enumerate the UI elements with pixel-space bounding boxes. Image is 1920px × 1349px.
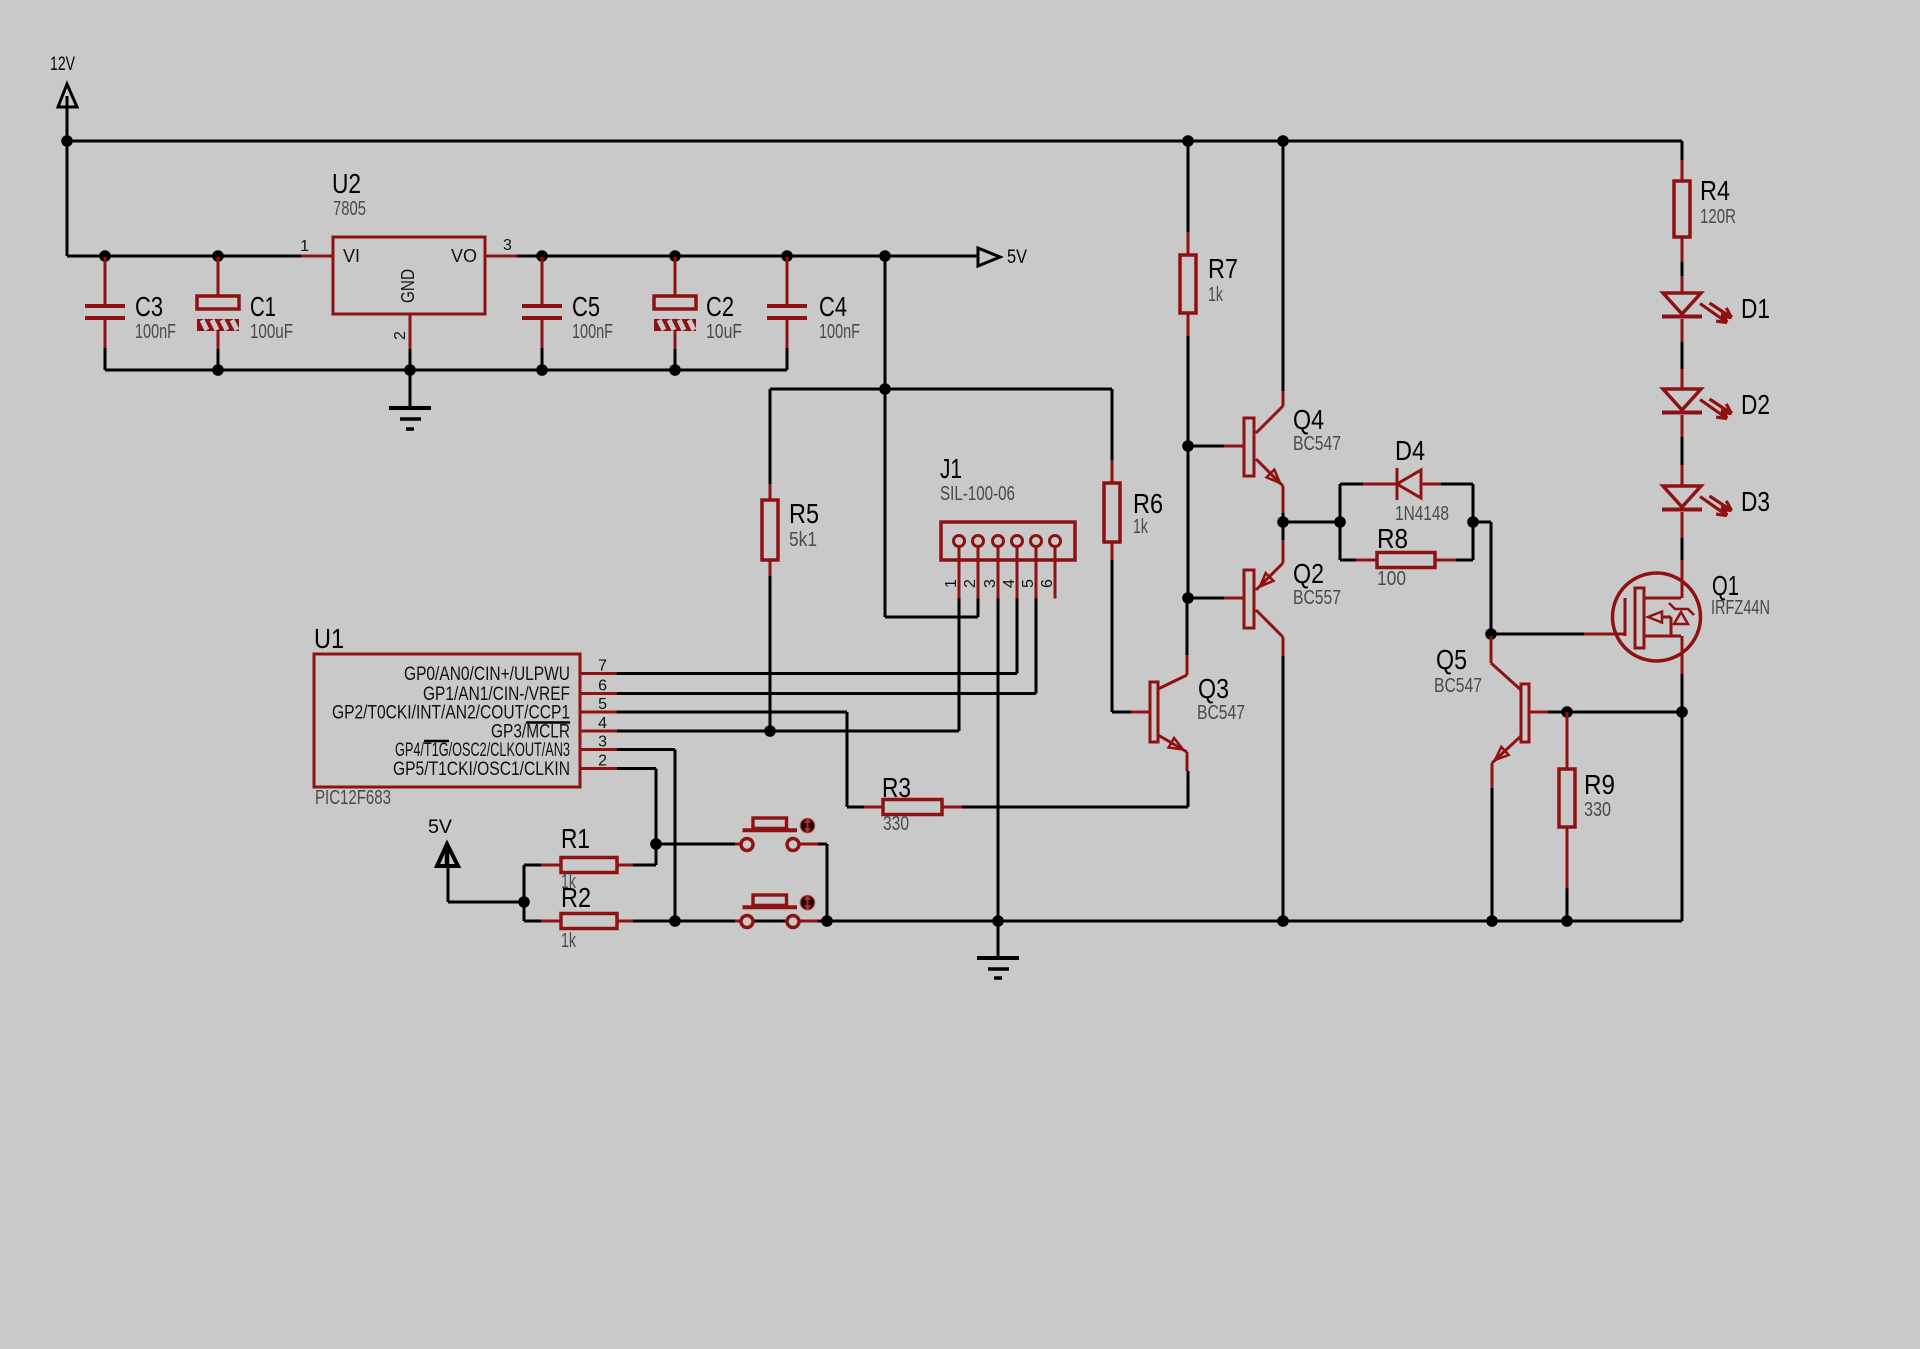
J1 pin number 4 <box>1001 579 1018 588</box>
R2 value 1k <box>561 930 577 952</box>
C4 value 100nF <box>819 321 860 343</box>
U1 pin number 7 <box>598 658 607 675</box>
C5 label <box>572 291 600 322</box>
svg-text:D2: D2 <box>1741 389 1770 420</box>
Q2 base wire <box>1188 597 1224 600</box>
D4 value 1N4148 <box>1395 503 1449 525</box>
voltage regulator U2 body <box>333 237 485 314</box>
svg-text:BC547: BC547 <box>1434 675 1482 697</box>
resistor R3 <box>864 800 962 815</box>
wire GP5 to R1 node <box>617 769 656 866</box>
R4 label <box>1700 175 1730 206</box>
J1 label <box>940 453 962 484</box>
U1 label <box>314 623 344 654</box>
junction R9 bottom <box>1561 915 1573 927</box>
wire node to D4/R8 <box>1283 521 1340 524</box>
wire 12V rail to R4 <box>1681 141 1684 160</box>
R1 label <box>561 823 590 854</box>
J1 pin number 5 <box>1020 579 1037 588</box>
svg-text:7805: 7805 <box>333 198 366 220</box>
Q3 value BC547 <box>1197 702 1245 724</box>
R9 label <box>1584 769 1615 800</box>
R9 value 330 <box>1584 799 1611 821</box>
transistor Q3 <box>1131 655 1187 771</box>
wire D4/R8 left link <box>1339 484 1342 560</box>
R2 label <box>561 882 591 913</box>
junction C1 bottom <box>212 364 224 376</box>
switch button2 contacts <box>735 916 818 928</box>
U2 pin 2 <box>392 314 410 349</box>
junction 5V branch <box>879 250 891 262</box>
svg-text:R7: R7 <box>1208 253 1238 284</box>
svg-text:3: 3 <box>598 734 607 751</box>
svg-text:5: 5 <box>598 696 607 713</box>
svg-text:IRFZ44N: IRFZ44N <box>1711 597 1770 619</box>
svg-text:R1: R1 <box>561 823 590 854</box>
capacitor C1 (polarized) <box>197 257 239 370</box>
Q2 label <box>1293 558 1324 589</box>
J1 pin 1 stub and pad <box>954 536 965 599</box>
svg-text:330: 330 <box>1584 799 1611 821</box>
wire Q2 emitter to node <box>1282 522 1285 540</box>
U1 pin name GP0/AN0/CIN+/ULPWU <box>404 663 570 685</box>
capacitor C4 <box>767 257 807 370</box>
power 12V arrow symbol <box>58 84 77 107</box>
svg-text:10uF: 10uF <box>706 321 742 343</box>
svg-text:R2: R2 <box>561 882 591 913</box>
R7 value 1k <box>1208 284 1224 306</box>
U2 pin 3 <box>485 237 517 256</box>
U1 pin 3 stub <box>580 748 617 751</box>
svg-text:5V: 5V <box>1007 246 1027 268</box>
junction D4/R8 left node <box>1334 516 1346 528</box>
power 5V net label (buttons) <box>428 816 452 838</box>
svg-text:2: 2 <box>392 331 409 340</box>
svg-text:4: 4 <box>1001 579 1018 588</box>
svg-text:C2: C2 <box>706 291 734 322</box>
svg-text:6: 6 <box>1039 579 1056 588</box>
wire J1 pin2 to 5V <box>885 598 978 617</box>
svg-text:D3: D3 <box>1741 486 1770 517</box>
U1 pin number 6 <box>598 678 607 695</box>
svg-text:100nF: 100nF <box>135 321 176 343</box>
wire Q4 emitter to node <box>1282 513 1285 522</box>
Q3 label <box>1198 673 1229 704</box>
svg-text:J1: J1 <box>940 453 962 484</box>
U1 MCLR overline <box>526 721 570 723</box>
R5 value 5k1 <box>789 529 817 551</box>
junction Q4 collector top rail <box>1277 135 1289 147</box>
transistor Q5 <box>1491 636 1548 788</box>
wire R1-R2 left link <box>523 865 526 921</box>
U1 value PIC12F683 <box>315 787 391 809</box>
svg-text:100nF: 100nF <box>819 321 860 343</box>
junction Q2 collector ground <box>1277 915 1289 927</box>
C3 label <box>135 291 163 322</box>
resistor R9 <box>1559 712 1575 921</box>
C4 label <box>819 291 847 322</box>
power 5V arrow symbol <box>978 248 1000 266</box>
Q4 label <box>1293 404 1324 435</box>
C3 value 100nF <box>135 321 176 343</box>
svg-text:3: 3 <box>503 237 512 254</box>
wire GP2 to R3 <box>617 712 864 807</box>
junction ground rail / J1 pin3 <box>992 915 1004 927</box>
svg-text:C4: C4 <box>819 291 847 322</box>
R1 value 1k <box>561 871 577 893</box>
transistor Q4 <box>1224 391 1283 513</box>
junction Q4 base <box>1182 440 1194 452</box>
svg-text:12V: 12V <box>50 53 75 75</box>
wire U2 GND to ground <box>409 349 412 370</box>
U1 pin name GP5/T1CKI/OSC1/CLKIN <box>393 758 570 780</box>
U1 T1G overline <box>424 740 449 742</box>
R5 label <box>789 498 819 529</box>
U1 pin name GP2/T0CKI/INT/AN2/COUT/CCP1 <box>332 702 570 724</box>
Q2 value BC557 <box>1293 587 1341 609</box>
J1 pin number 1 <box>943 579 960 588</box>
resistor R5 <box>762 389 778 731</box>
wire J1 pin4 to GP0 row <box>617 598 1017 674</box>
junction D4/R8 right node <box>1467 516 1479 528</box>
wire Q1 source down <box>1681 674 1684 921</box>
svg-text:VI: VI <box>343 246 360 266</box>
svg-text:7: 7 <box>598 658 607 675</box>
svg-text:R4: R4 <box>1700 175 1730 206</box>
wire 5V rail from U2 <box>517 255 978 258</box>
R3 value 330 <box>883 813 909 835</box>
wire D4/R8 right link <box>1472 484 1475 560</box>
junction 5V feed <box>518 896 530 908</box>
ground symbol GND2 <box>977 921 1019 978</box>
wire 12V top rail <box>67 140 1682 143</box>
junction 12V rail <box>61 135 73 147</box>
junction C1 top <box>212 250 224 262</box>
svg-text:SIL-100-06: SIL-100-06 <box>940 483 1015 505</box>
Q4 base wire <box>1188 445 1224 448</box>
resistor R2 <box>524 914 633 929</box>
U1 pin number 4 <box>598 715 607 732</box>
wire J1 pin1 to MCLR row <box>617 598 959 731</box>
capacitor C3 <box>85 257 125 370</box>
U1 pin name GP1/AN1/CIN-/VREF <box>423 683 570 705</box>
resistor R6 <box>1104 389 1120 712</box>
LED D3 <box>1662 486 1732 560</box>
wire J1 pin5 to GP1 row <box>617 598 1036 694</box>
switch button2 actuator <box>743 895 815 910</box>
wire R6 to Q3 base <box>1112 711 1131 714</box>
svg-text:VO: VO <box>451 246 477 266</box>
svg-text:1k: 1k <box>1208 284 1224 306</box>
svg-text:2: 2 <box>598 753 607 770</box>
wire 12V feed to U2 <box>67 255 302 258</box>
U1 pin number 3 <box>598 734 607 751</box>
wire Q5 base row <box>1548 711 1567 714</box>
switch button1 actuator <box>743 818 815 833</box>
Q5 label <box>1436 644 1467 675</box>
junction GP4/R2/button2 <box>669 915 681 927</box>
wire gate lead <box>1491 633 1624 636</box>
wire Q4 collector to 12V <box>1282 141 1285 391</box>
junction R7 top <box>1182 135 1194 147</box>
wire GP4 to buttons row <box>617 750 675 922</box>
R8 value 100 <box>1377 568 1406 590</box>
J1 pin 6 stub and pad <box>1050 536 1061 599</box>
svg-text:330: 330 <box>883 813 909 835</box>
J1 pin number 3 <box>982 579 999 588</box>
U1 pin 6 stub <box>580 692 617 695</box>
junction Q4/Q2/D4 node <box>1277 516 1289 528</box>
U1 pin 4 stub <box>580 730 617 733</box>
mosfet Q1 <box>1613 560 1701 674</box>
svg-text:3: 3 <box>982 579 999 588</box>
U1 pin 2 stub <box>580 767 617 770</box>
junction R9 top <box>1561 706 1573 718</box>
R6 value 1k <box>1133 516 1149 538</box>
J1 pin 2 stub and pad <box>973 536 984 599</box>
J1 pin 3 stub and pad <box>993 536 1004 599</box>
U2 value 7805 <box>333 198 366 220</box>
svg-text:C3: C3 <box>135 291 163 322</box>
D1 label <box>1741 293 1770 324</box>
J1 pin number 6 <box>1039 579 1056 588</box>
C1 value 100uF <box>250 321 293 343</box>
wire capacitor ground rail <box>105 369 787 372</box>
power 12V net label <box>50 53 75 75</box>
wire R3 to Q3 emitter <box>962 771 1188 807</box>
svg-text:5k1: 5k1 <box>789 529 817 551</box>
svg-text:Q2: Q2 <box>1293 558 1324 589</box>
J1 pin 5 stub and pad <box>1031 536 1042 599</box>
LED D2 <box>1662 389 1732 486</box>
junction C4 top <box>781 250 793 262</box>
wire right node to gate column <box>1473 522 1491 634</box>
U2 pin GND name <box>398 269 418 303</box>
svg-text:100nF: 100nF <box>572 321 613 343</box>
svg-text:D1: D1 <box>1741 293 1770 324</box>
junction R5 to MCLR row <box>764 725 776 737</box>
microcontroller U1 body <box>314 654 580 787</box>
junction Q5 emitter ground <box>1486 915 1498 927</box>
svg-text:BC547: BC547 <box>1197 702 1245 724</box>
svg-text:Q5: Q5 <box>1436 644 1467 675</box>
junction C5 bottom <box>536 364 548 376</box>
J1 pin 4 stub and pad <box>1012 536 1023 599</box>
LED D1 <box>1662 293 1732 389</box>
junction button1 ground <box>821 915 833 927</box>
wire R7 to Q2 base <box>1187 446 1190 598</box>
svg-text:C5: C5 <box>572 291 600 322</box>
svg-text:BC547: BC547 <box>1293 433 1341 455</box>
svg-text:U1: U1 <box>314 623 344 654</box>
junction C2 bottom <box>669 364 681 376</box>
wire Q3 collector up <box>1186 598 1189 655</box>
wire 5V distribution rail <box>770 388 1112 391</box>
C5 value 100nF <box>572 321 613 343</box>
U2 label <box>332 168 361 199</box>
svg-text:U2: U2 <box>332 168 361 199</box>
C2 value 10uF <box>706 321 742 343</box>
svg-text:5V: 5V <box>428 816 452 838</box>
D2 label <box>1741 389 1770 420</box>
R4 value 120R <box>1700 206 1736 228</box>
J1 pin number 2 <box>962 579 979 588</box>
U1 pin number 2 <box>598 753 607 770</box>
Q1 label <box>1712 570 1739 601</box>
svg-text:1: 1 <box>943 579 960 588</box>
svg-text:2: 2 <box>962 579 979 588</box>
Q4 value BC547 <box>1293 433 1341 455</box>
U1 pin name GP4/T1G/OSC2/CLKOUT/AN3 <box>395 739 570 761</box>
ground symbol GND1 <box>389 370 431 429</box>
junction 5V rail branch <box>879 383 891 395</box>
connector J1 body <box>941 522 1075 560</box>
wire 12V arrow to rails <box>66 96 69 256</box>
U2 pin 1 <box>300 238 333 256</box>
svg-text:Q3: Q3 <box>1198 673 1229 704</box>
svg-text:R6: R6 <box>1133 488 1163 519</box>
svg-text:R9: R9 <box>1584 769 1615 800</box>
D4 label <box>1395 435 1425 466</box>
power 5V net label <box>1007 246 1027 268</box>
svg-text:BC557: BC557 <box>1293 587 1341 609</box>
R7 label <box>1208 253 1238 284</box>
wire Q5 emitter to ground rail <box>1491 788 1494 921</box>
junction C2 top <box>669 250 681 262</box>
resistor R1 <box>524 858 656 873</box>
svg-text:1k: 1k <box>1133 516 1149 538</box>
wire base row to source column <box>1567 711 1682 714</box>
svg-text:C1: C1 <box>250 291 276 322</box>
switch button1 contacts <box>735 839 818 851</box>
power 5V arrow (buttons) <box>437 844 458 868</box>
junction Q2 base / Q3 collector <box>1182 592 1194 604</box>
svg-text:1: 1 <box>300 238 309 255</box>
U2 pin VO name <box>451 246 477 266</box>
svg-text:120R: 120R <box>1700 206 1736 228</box>
junction GP5/R1/button1 <box>650 838 662 850</box>
resistor R4 <box>1674 160 1690 293</box>
svg-text:100uF: 100uF <box>250 321 293 343</box>
svg-text:4: 4 <box>598 715 607 732</box>
svg-text:PIC12F683: PIC12F683 <box>315 787 391 809</box>
wire ground rail bottom <box>633 920 1682 923</box>
R8 label <box>1377 523 1408 554</box>
junction U2 ground <box>404 364 416 376</box>
wire 5V branch down <box>884 256 887 617</box>
U1 pin 5 stub <box>580 711 617 714</box>
junction C3 top <box>99 250 111 262</box>
R3 label <box>882 772 911 803</box>
svg-text:D4: D4 <box>1395 435 1425 466</box>
svg-text:GP0/AN0/CIN+/ULPWU: GP0/AN0/CIN+/ULPWU <box>404 663 570 685</box>
svg-text:1k: 1k <box>561 930 577 952</box>
wire R1 node to button1 <box>656 843 735 846</box>
svg-text:R5: R5 <box>789 498 819 529</box>
junction gate / Q5 collector <box>1485 628 1497 640</box>
C1 label <box>250 291 276 322</box>
svg-text:GND: GND <box>398 269 418 303</box>
U1 pin number 5 <box>598 696 607 713</box>
resistor R7 <box>1180 141 1196 446</box>
svg-text:R8: R8 <box>1377 523 1408 554</box>
svg-text:5: 5 <box>1020 579 1037 588</box>
U2 pin VI name <box>343 246 360 266</box>
svg-text:Q4: Q4 <box>1293 404 1324 435</box>
J1 value SIL-100-06 <box>940 483 1015 505</box>
junction C5 top <box>536 250 548 262</box>
C2 label <box>706 291 734 322</box>
U1 pin name GP3/MCLR <box>491 721 570 743</box>
svg-text:R3: R3 <box>882 772 911 803</box>
resistor R8 <box>1340 553 1473 568</box>
svg-text:100: 100 <box>1377 568 1406 590</box>
Q1 value IRFZ44N <box>1711 597 1770 619</box>
R6 label <box>1133 488 1163 519</box>
transistor Q2 <box>1224 540 1283 656</box>
diode D4 <box>1340 468 1473 500</box>
svg-text:1N4148: 1N4148 <box>1395 503 1449 525</box>
capacitor C5 <box>522 257 562 370</box>
U1 pin 7 stub <box>580 672 617 675</box>
capacitor C2 (polarized) <box>654 257 696 370</box>
svg-text:GP5/T1CKI/OSC1/CLKIN: GP5/T1CKI/OSC1/CLKIN <box>393 758 570 780</box>
Q5 value BC547 <box>1434 675 1482 697</box>
wire button1 to ground rail <box>818 844 827 921</box>
wire Q2 collector to ground rail <box>1282 656 1285 921</box>
junction Q1 source node <box>1676 706 1688 718</box>
D3 label <box>1741 486 1770 517</box>
svg-text:6: 6 <box>598 678 607 695</box>
wire J1 pin3 to ground rail <box>997 598 1000 921</box>
wire 5V to R1/R2 <box>448 868 524 902</box>
